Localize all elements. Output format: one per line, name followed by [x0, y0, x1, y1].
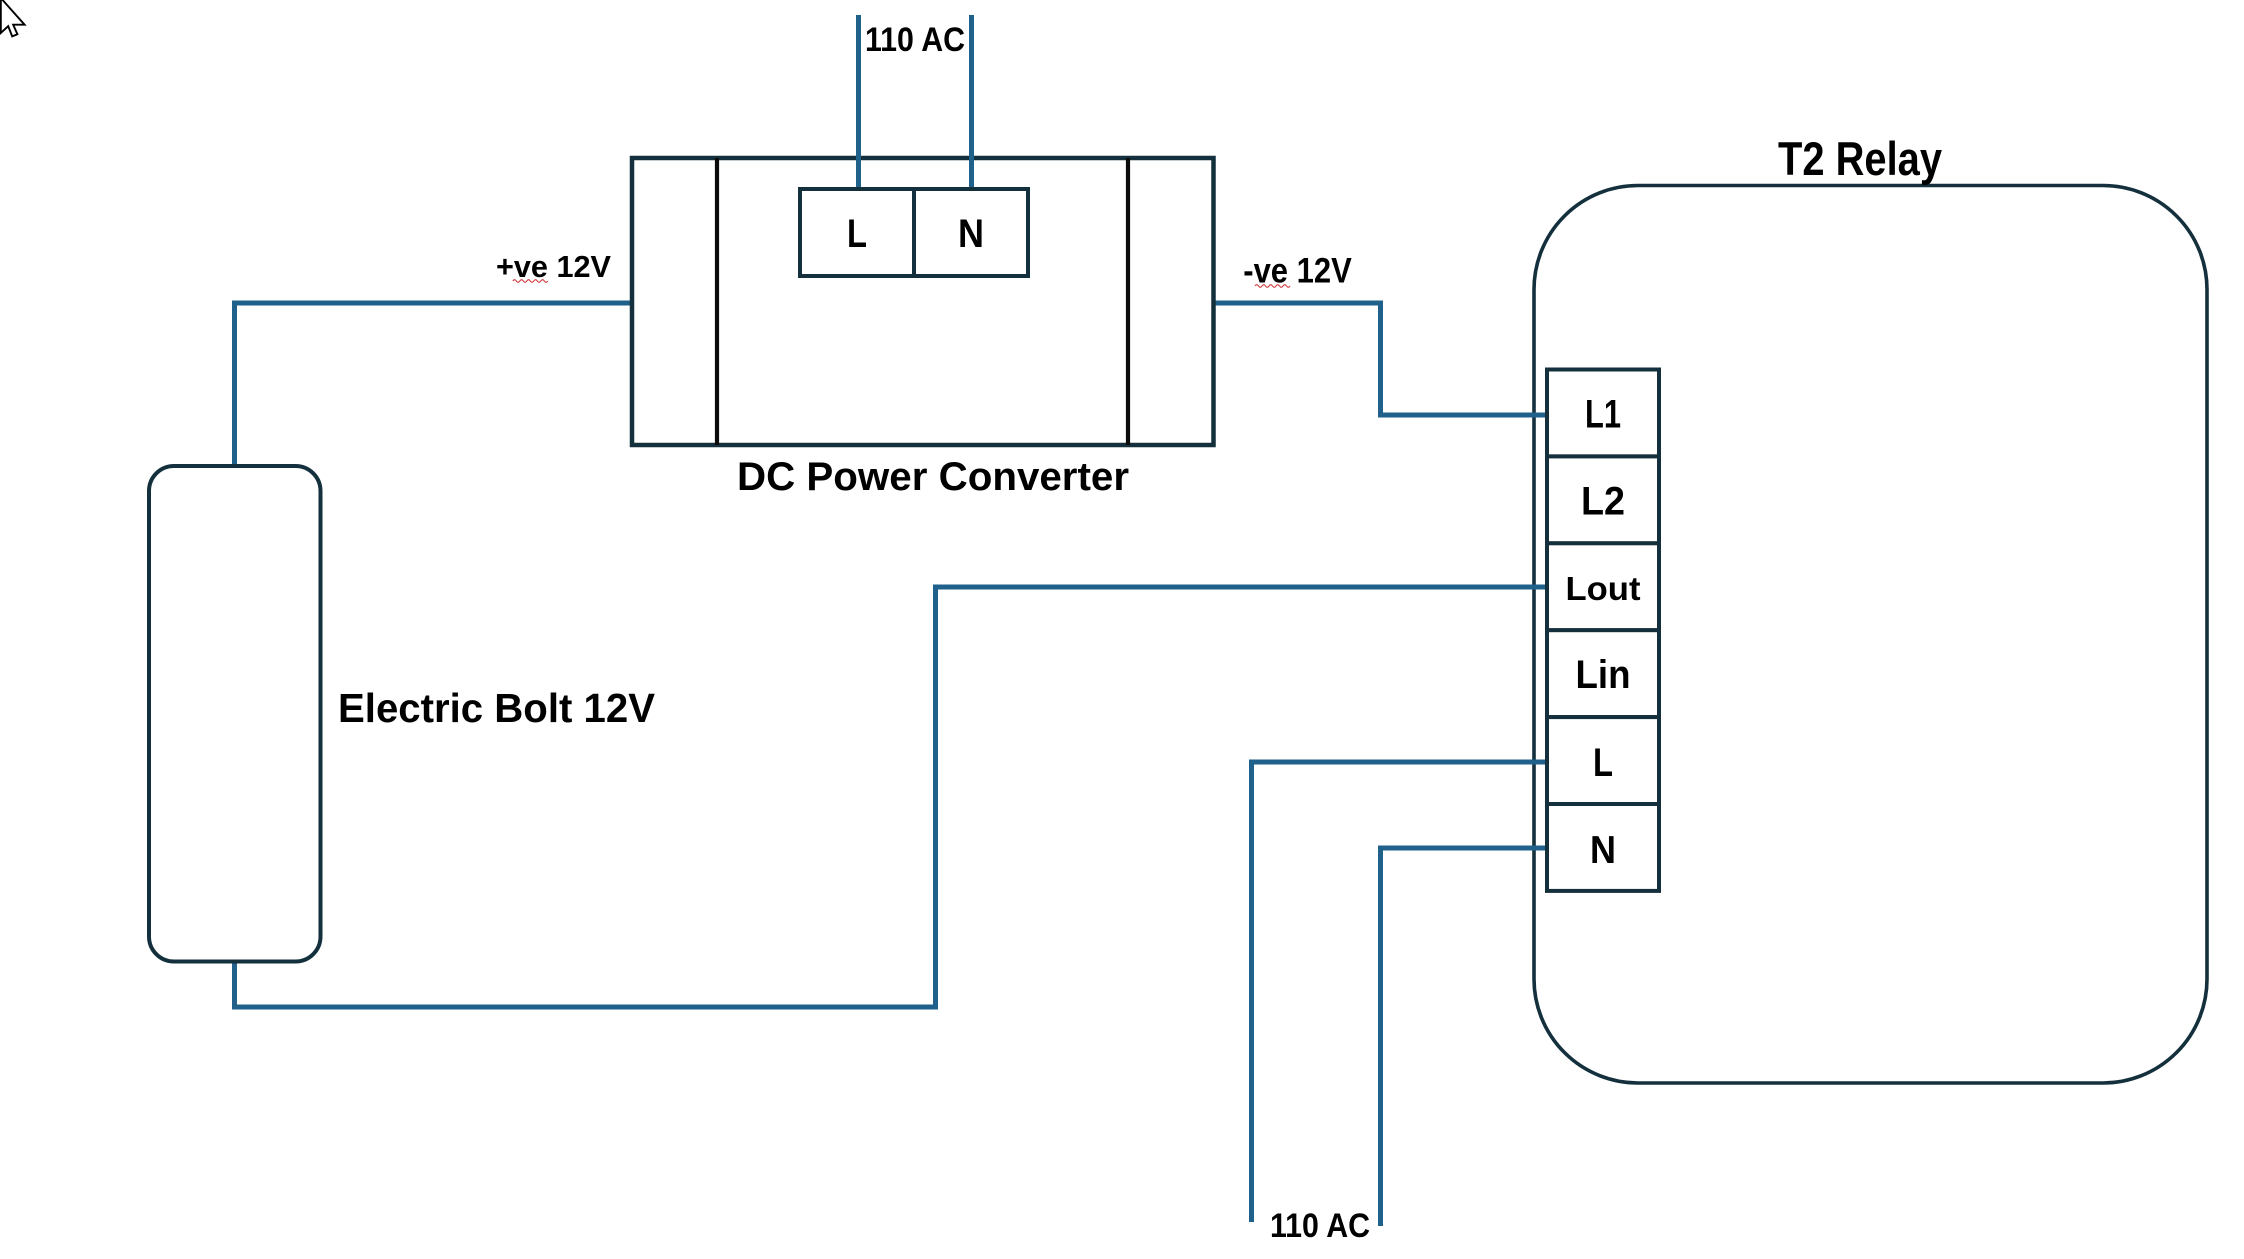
relay body U2 (T2 Relay) [1534, 186, 2207, 1084]
relay terminal Lout [1547, 543, 1659, 630]
wire relay L to bottom 110AC [1252, 762, 1550, 1222]
relay terminal L1 [1547, 370, 1659, 457]
svg-text:N: N [958, 212, 984, 256]
svg-text:L: L [1593, 741, 1613, 785]
svg-text:T2 Relay: T2 Relay [1778, 132, 1942, 185]
relay terminal Lin [1547, 630, 1659, 717]
spellcheck squiggle under -ve [1255, 285, 1290, 288]
svg-text:110 AC: 110 AC [1270, 1207, 1370, 1245]
converter AC terminal block L/N [800, 189, 1028, 276]
wire +ve 12V (bolt top to converter left) [235, 303, 633, 468]
bolt B1 (Electric Bolt 12V) [149, 466, 321, 962]
wire 110AC L top drop [856, 15, 861, 192]
converter inner divider left [715, 158, 719, 445]
relay terminal N [1547, 804, 1659, 891]
svg-text:110 AC: 110 AC [865, 21, 965, 59]
wire 110AC N top drop [969, 15, 974, 192]
svg-text:L2: L2 [1581, 480, 1625, 524]
svg-text:L: L [847, 212, 867, 256]
spellcheck squiggle under +ve [513, 280, 548, 283]
converter inner divider right [1126, 158, 1130, 445]
svg-text:Lin: Lin [1576, 653, 1631, 697]
relay terminal L [1547, 717, 1659, 804]
converter box U1 (DC Power Converter) [632, 158, 1214, 445]
svg-text:Electric Bolt 12V: Electric Bolt 12V [338, 685, 656, 731]
svg-text:DC Power Converter: DC Power Converter [737, 455, 1129, 499]
wire bolt bottom to relay Lout [235, 587, 1550, 1007]
wire relay N to bottom 110AC [1381, 848, 1550, 1226]
svg-text:-ve 12V: -ve 12V [1243, 251, 1352, 291]
svg-text:L1: L1 [1585, 393, 1621, 437]
wire -ve 12V (converter right to relay L1) [1213, 303, 1549, 415]
mouse cursor [1, 0, 25, 36]
svg-text:Lout: Lout [1566, 570, 1641, 607]
relay terminal L2 [1547, 456, 1659, 543]
svg-text:N: N [1590, 829, 1616, 872]
converter L/N divider [912, 189, 916, 276]
svg-text:+ve 12V: +ve 12V [496, 249, 611, 284]
